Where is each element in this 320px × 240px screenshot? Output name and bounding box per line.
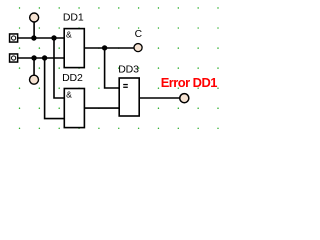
junction J2 (31, 55, 36, 60)
wire drop to indicator O2 (33, 58, 35, 75)
XOR/equality gate DD3 (119, 78, 139, 116)
svg-text:DD3: DD3 (118, 64, 139, 76)
wire DD1 output to node C (84, 47, 134, 49)
indicator O1 (30, 13, 39, 22)
wire riser to indicator O1 (33, 22, 35, 38)
wire input1 horizontal (18, 37, 64, 39)
indicator O2 (30, 75, 39, 84)
wire drop from node C to DD3 input A (105, 48, 120, 88)
wire DD2 output to DD3 input B (84, 107, 119, 109)
AND gate DD2 (64, 89, 84, 128)
input terminal X1 (10, 34, 18, 42)
wire input2 horizontal (18, 57, 64, 59)
svg-text:&: & (66, 30, 72, 40)
input terminal X2 (10, 54, 18, 62)
svg-text:DD1: DD1 (63, 11, 84, 23)
junction J4 (102, 45, 107, 50)
junction J1 (31, 35, 36, 40)
junction J5 (51, 35, 56, 40)
terminal Error circle (180, 94, 189, 103)
wire V1 vertical to DD2 input B (45, 58, 65, 119)
svg-text:DD2: DD2 (62, 72, 83, 84)
wire V2 vertical to DD2 input A (54, 38, 64, 98)
svg-text:Error DD1: Error DD1 (161, 75, 218, 90)
svg-text:C: C (135, 29, 143, 40)
terminal C circle (134, 44, 142, 52)
wire DD3 output to Error terminal (139, 97, 180, 99)
svg-text:&: & (66, 90, 72, 100)
AND gate DD1 (64, 29, 84, 68)
junction J3 (42, 55, 47, 60)
